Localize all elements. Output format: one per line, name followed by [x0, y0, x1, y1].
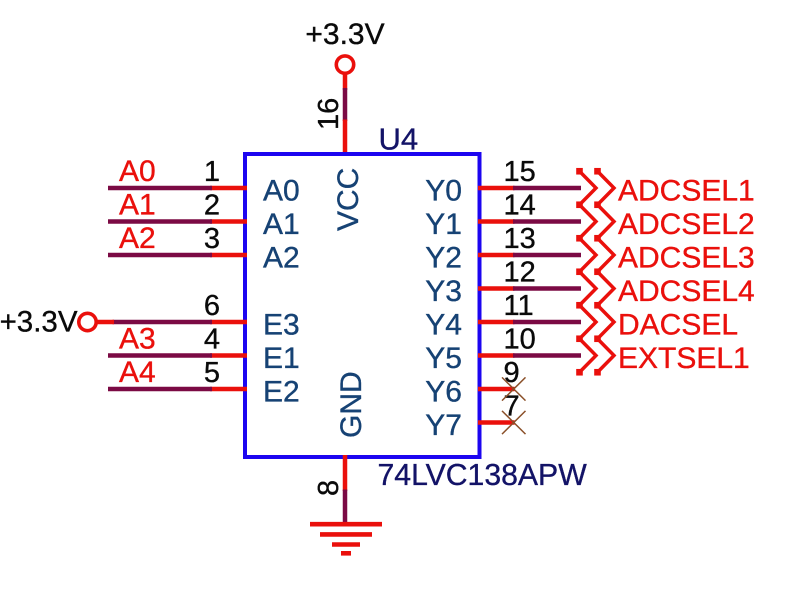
svg-text:A0: A0 — [119, 155, 156, 188]
svg-text:+3.3V: +3.3V — [0, 306, 78, 339]
wire net A0 (left row 1) — [108, 186, 212, 191]
svg-text:Y1: Y1 — [425, 208, 462, 241]
svg-text:Y3: Y3 — [425, 275, 462, 308]
svg-text:+3.3V: +3.3V — [305, 18, 384, 51]
svg-text:Y5: Y5 — [425, 342, 462, 375]
pin 16 VCC stub — [343, 120, 348, 157]
svg-text:EXTSEL1: EXTSEL1 — [618, 342, 750, 375]
svg-text:ADCSEL4: ADCSEL4 — [618, 275, 755, 308]
wire net VCC (vertical to pin 16) — [343, 88, 348, 121]
svg-text:A0: A0 — [263, 175, 300, 208]
svg-text:A2: A2 — [263, 242, 300, 275]
svg-text:5: 5 — [204, 357, 220, 389]
wire net EXTSEL1 (right row 6) — [513, 353, 581, 358]
svg-text:16: 16 — [313, 98, 345, 130]
bus ripper zigzag (inner column) — [580, 171, 597, 372]
pin 15 stub (right row 1) — [478, 186, 515, 191]
pin 4 stub (left row 6) — [210, 353, 247, 358]
pin 7 stub (right row 8) — [478, 420, 515, 425]
svg-text:7: 7 — [504, 391, 520, 423]
pin 6 stub (left row 5) — [210, 320, 247, 325]
svg-text:A4: A4 — [119, 356, 156, 389]
pin 5 stub (left row 7) — [210, 387, 247, 392]
svg-text:74LVC138APW: 74LVC138APW — [378, 459, 588, 492]
svg-text:ADCSEL3: ADCSEL3 — [618, 242, 755, 275]
wire net A2 (left row 3) — [108, 253, 212, 258]
IC U4 body outline — [245, 154, 480, 457]
pin 10 stub (right row 6) — [478, 353, 515, 358]
svg-text:Y7: Y7 — [425, 409, 462, 442]
no-connect cross on pin 7 — [502, 411, 526, 434]
svg-text:14: 14 — [504, 190, 536, 222]
svg-text:8: 8 — [313, 480, 345, 496]
ground symbol — [310, 524, 382, 553]
wire net A3 (left row 6) — [108, 353, 212, 358]
svg-text:E3: E3 — [263, 309, 300, 342]
svg-text:Y6: Y6 — [425, 376, 462, 409]
svg-text:Y0: Y0 — [425, 175, 462, 208]
svg-text:Y2: Y2 — [425, 242, 462, 275]
svg-text:12: 12 — [504, 257, 536, 289]
wire net ADCSEL1 (right row 1) — [513, 186, 581, 191]
wire net ADCSEL4 (right row 4) — [513, 286, 581, 291]
pin 14 stub (right row 2) — [478, 219, 515, 224]
wire net A4 (left row 7) — [108, 387, 212, 392]
wire net ADCSEL2 (right row 2) — [513, 219, 581, 224]
svg-text:E2: E2 — [263, 376, 300, 409]
no-connect cross on pin 9 — [502, 377, 526, 400]
power symbol +3.3V (left, feeds E3) — [0, 306, 114, 339]
pin 13 stub (right row 3) — [478, 253, 515, 258]
svg-text:DACSEL: DACSEL — [618, 309, 738, 342]
power symbol +3.3V (top, net VCC) — [305, 18, 384, 90]
svg-text:15: 15 — [504, 156, 536, 188]
svg-text:4: 4 — [204, 324, 220, 356]
pin 2 stub (left row 2) — [210, 219, 247, 224]
wire net A1 (left row 2) — [108, 219, 212, 224]
bus ripper zigzag (outer column) — [598, 171, 615, 372]
pin 11 stub (right row 5) — [478, 320, 515, 325]
svg-text:9: 9 — [504, 357, 520, 389]
svg-text:Y4: Y4 — [425, 309, 462, 342]
wire net ADCSEL3 (right row 3) — [513, 253, 581, 258]
svg-text:A2: A2 — [119, 222, 156, 255]
svg-text:10: 10 — [504, 324, 536, 356]
svg-text:U4: U4 — [379, 122, 419, 157]
wire net GND (vertical) — [343, 490, 348, 527]
pin 9 stub (right row 7) — [478, 387, 515, 392]
svg-text:1: 1 — [204, 156, 220, 188]
wire net DACSEL (right row 5) — [513, 320, 581, 325]
pin 1 stub (left row 1) — [210, 186, 247, 191]
svg-text:3: 3 — [204, 223, 220, 255]
svg-text:6: 6 — [204, 290, 220, 322]
svg-text:VCC: VCC — [332, 168, 365, 231]
svg-text:GND: GND — [335, 371, 368, 438]
svg-text:A3: A3 — [119, 323, 156, 356]
svg-text:A1: A1 — [263, 208, 300, 241]
svg-text:ADCSEL2: ADCSEL2 — [618, 208, 755, 241]
svg-text:E1: E1 — [263, 342, 300, 375]
svg-text:ADCSEL1: ADCSEL1 — [618, 175, 755, 208]
svg-text:13: 13 — [504, 223, 536, 255]
svg-text:11: 11 — [504, 290, 534, 322]
pin 8 GND stub — [343, 455, 348, 491]
svg-text:A1: A1 — [119, 189, 156, 222]
svg-text:2: 2 — [204, 190, 220, 222]
wire net +3.3V to pin E3 — [113, 320, 213, 325]
zigzag junction dots — [576, 168, 601, 376]
pin 3 stub (left row 3) — [210, 253, 247, 258]
pin 12 stub (right row 4) — [478, 286, 515, 291]
